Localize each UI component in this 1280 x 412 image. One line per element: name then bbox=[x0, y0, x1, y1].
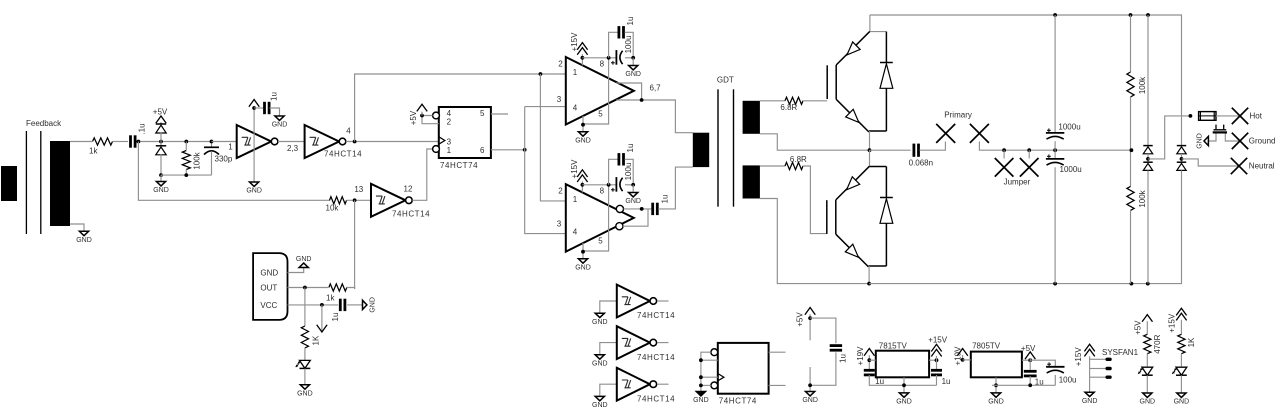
svg-text:12: 12 bbox=[404, 185, 413, 194]
junction bbox=[699, 384, 703, 388]
label 100k bbox=[1138, 189, 1147, 207]
wire bbox=[625, 159, 634, 185]
wire bbox=[581, 54, 583, 65]
label 1K bbox=[1187, 337, 1196, 347]
pin 2 bbox=[558, 187, 563, 196]
wire bbox=[1147, 154, 1149, 162]
wire bbox=[1054, 15, 1056, 133]
output bubble pin 7 bbox=[616, 223, 623, 230]
junction bbox=[252, 106, 256, 110]
svg-text:1000u: 1000u bbox=[1058, 123, 1080, 132]
junction bbox=[581, 123, 585, 127]
label 6.8R bbox=[790, 155, 807, 164]
label 100u bbox=[624, 36, 633, 54]
wire bbox=[657, 383, 668, 385]
inverter U1C 74HCT14 bbox=[371, 184, 412, 217]
junction bbox=[808, 316, 812, 320]
terminal Primary 2 bbox=[970, 124, 989, 143]
junction bbox=[320, 303, 324, 307]
wire bbox=[582, 57, 616, 59]
svg-text:1k: 1k bbox=[326, 294, 335, 303]
inverting pin bubble bbox=[711, 349, 718, 356]
wire bbox=[1180, 375, 1182, 393]
pin 6 label bbox=[480, 146, 485, 155]
wire bbox=[920, 142, 946, 151]
wire bbox=[979, 142, 1131, 151]
svg-text:GND: GND bbox=[693, 397, 709, 404]
junction bbox=[1146, 13, 1150, 17]
transistor Q2 (IGBT) bbox=[827, 166, 870, 267]
wire bbox=[760, 134, 870, 150]
ground bbox=[693, 392, 709, 405]
label 100k bbox=[193, 151, 202, 169]
svg-text:1: 1 bbox=[573, 68, 578, 77]
clock input wedge bbox=[718, 374, 724, 381]
capacitor 100u electrolytic bbox=[611, 50, 623, 65]
power +19V arrow bbox=[864, 349, 874, 356]
svg-text:GDT: GDT bbox=[717, 75, 734, 84]
capacitor 1000u electrolytic bbox=[1046, 154, 1064, 165]
power +15V arrow bbox=[931, 344, 941, 356]
svg-text:2: 2 bbox=[447, 118, 452, 127]
svg-text:Jumper: Jumper bbox=[1004, 177, 1031, 186]
ground bbox=[802, 392, 818, 405]
label 470R bbox=[1153, 334, 1162, 353]
diode clamp to +5V bbox=[156, 124, 166, 133]
label OUT pin bbox=[260, 283, 277, 292]
wire bbox=[1054, 150, 1056, 159]
svg-text:Ground: Ground bbox=[1249, 137, 1276, 146]
wire bbox=[870, 31, 887, 33]
wire bbox=[760, 199, 869, 284]
svg-text:GND: GND bbox=[625, 71, 641, 78]
wire bbox=[1146, 375, 1148, 393]
pin 3 bbox=[557, 95, 562, 104]
junction bbox=[1053, 282, 1057, 286]
output bubble pin 6 bbox=[616, 205, 623, 212]
wire bbox=[1028, 150, 1030, 158]
svg-text:100u: 100u bbox=[1059, 376, 1077, 385]
label 1u bbox=[942, 377, 951, 386]
svg-text:74HCT14: 74HCT14 bbox=[637, 394, 675, 403]
wire bbox=[160, 175, 162, 181]
label 74HCT14 bbox=[392, 210, 430, 219]
wire bbox=[625, 184, 633, 186]
wire bbox=[657, 300, 668, 302]
label +15V bbox=[570, 32, 579, 52]
svg-text:74HCT14: 74HCT14 bbox=[637, 353, 675, 362]
wire bbox=[1147, 15, 1149, 146]
wire bbox=[347, 199, 372, 201]
transistor Q1 (IGBT) bbox=[827, 31, 870, 132]
connector/sensor (GND OUT VCC) bbox=[253, 253, 287, 320]
junction bbox=[1028, 383, 1032, 387]
svg-text:Neutral: Neutral bbox=[1249, 162, 1275, 171]
wire bbox=[962, 355, 964, 360]
inverting pin bubble bbox=[711, 382, 718, 389]
wire bbox=[1130, 97, 1132, 187]
label 1u bbox=[626, 17, 635, 26]
junction bbox=[581, 183, 585, 187]
svg-text:VCC: VCC bbox=[260, 301, 277, 310]
label GND pin bbox=[260, 268, 278, 277]
label +5V bbox=[1021, 344, 1036, 353]
junction bbox=[994, 383, 998, 387]
junction bbox=[1130, 282, 1134, 286]
wire bbox=[701, 359, 718, 361]
pin 2 label bbox=[447, 118, 452, 127]
ground bbox=[1082, 392, 1098, 405]
wire bbox=[540, 74, 565, 201]
label 330p bbox=[215, 155, 233, 164]
junction bbox=[1189, 114, 1193, 118]
svg-text:2,3: 2,3 bbox=[287, 144, 299, 153]
junction bbox=[699, 375, 703, 379]
svg-text:5: 5 bbox=[480, 109, 485, 118]
svg-text:1u: 1u bbox=[331, 313, 340, 322]
resistor 100k bbox=[1127, 186, 1134, 210]
junction bbox=[137, 140, 141, 144]
pin 1 label bbox=[447, 146, 452, 155]
svg-text:+15V: +15V bbox=[928, 336, 948, 345]
wire bbox=[253, 106, 255, 182]
ground bbox=[592, 313, 608, 326]
wire bbox=[583, 185, 609, 251]
wire bbox=[963, 359, 971, 361]
terminal Neutral bbox=[1231, 158, 1247, 174]
label 1u bbox=[331, 313, 340, 322]
junction bbox=[640, 98, 644, 102]
label +15V bbox=[1168, 313, 1177, 333]
label 7805TV bbox=[972, 341, 1001, 350]
junction bbox=[539, 72, 543, 76]
wire bbox=[929, 359, 936, 361]
wire bbox=[582, 116, 584, 132]
resistor 100k bbox=[1127, 72, 1134, 97]
wire bbox=[623, 209, 648, 226]
wire bbox=[1029, 376, 1031, 385]
svg-text:Hot: Hot bbox=[1250, 112, 1263, 121]
wire bbox=[600, 301, 617, 313]
wire bbox=[1089, 356, 1091, 392]
wire bbox=[304, 288, 306, 327]
label 74HCT14 bbox=[637, 353, 675, 362]
LED D7 bbox=[296, 360, 311, 368]
wire bbox=[609, 159, 618, 185]
svg-text:1u: 1u bbox=[1035, 378, 1044, 387]
label VCC pin bbox=[260, 301, 277, 310]
ground bbox=[1174, 393, 1190, 406]
pin 8 bbox=[600, 187, 605, 196]
terminal Jumper 2 bbox=[1020, 158, 1039, 177]
junction bbox=[1146, 157, 1150, 161]
capacitor 1u bbox=[340, 299, 345, 311]
label 10k bbox=[326, 204, 340, 213]
wire bbox=[992, 384, 1055, 386]
capacitor 100u electrolytic bbox=[1046, 362, 1064, 373]
inverting clear pin bubble bbox=[433, 146, 440, 153]
wire bbox=[1148, 116, 1190, 159]
label Feedback bbox=[26, 119, 62, 128]
connector SYSFAN1 pin 1 bbox=[1106, 358, 1112, 361]
wire bbox=[1181, 170, 1183, 271]
svg-text:6,7: 6,7 bbox=[650, 84, 662, 93]
ground bbox=[153, 182, 169, 195]
svg-text:1u: 1u bbox=[626, 17, 635, 26]
svg-text:4: 4 bbox=[447, 109, 452, 118]
junction bbox=[699, 358, 703, 362]
junction bbox=[353, 140, 357, 144]
wire bbox=[936, 356, 938, 370]
pin 1 bbox=[573, 68, 578, 77]
label Hot bbox=[1250, 112, 1263, 121]
svg-text:1: 1 bbox=[573, 195, 578, 204]
diode D2 (freewheel) bbox=[880, 167, 893, 267]
wire bbox=[347, 304, 362, 306]
junction bbox=[1129, 13, 1133, 17]
wire bbox=[525, 107, 566, 234]
wire bbox=[1022, 359, 1030, 361]
label 100u bbox=[624, 163, 633, 181]
svg-text:GND: GND bbox=[592, 402, 608, 409]
wire bbox=[491, 113, 508, 115]
wire bbox=[617, 100, 693, 133]
junction bbox=[935, 358, 939, 362]
wire bbox=[347, 288, 355, 290]
ground bbox=[988, 393, 1004, 406]
wire bbox=[304, 348, 306, 360]
svg-text:3: 3 bbox=[557, 220, 562, 229]
junction bbox=[581, 250, 585, 254]
wire bbox=[138, 142, 330, 201]
wire bbox=[1054, 375, 1056, 385]
connector SYSFAN1 pin 2 bbox=[1106, 367, 1112, 370]
svg-text:5: 5 bbox=[598, 110, 603, 119]
power +19V arrow bbox=[957, 349, 967, 356]
power +15V arrow bbox=[577, 43, 587, 55]
wire bbox=[582, 184, 616, 186]
label .1u bbox=[138, 123, 147, 134]
wire bbox=[658, 167, 693, 209]
capacitor 1u bbox=[619, 26, 624, 38]
wire bbox=[616, 83, 641, 100]
label 74HCT14 bbox=[637, 311, 675, 320]
svg-text:6.8R: 6.8R bbox=[790, 155, 807, 164]
wire bbox=[1216, 115, 1240, 117]
wire bbox=[869, 271, 1181, 284]
ground bbox=[625, 66, 641, 79]
pin 8 bbox=[600, 60, 605, 69]
transformer GDT secondary 2 bbox=[743, 165, 760, 198]
svg-text:7805TV: 7805TV bbox=[972, 341, 1001, 350]
svg-text:1k: 1k bbox=[89, 147, 98, 156]
wire bbox=[1130, 15, 1132, 72]
resistor 1k bbox=[329, 284, 347, 291]
junction bbox=[902, 383, 906, 387]
wire bbox=[936, 375, 938, 385]
label Jumper bbox=[1004, 177, 1031, 186]
feedback transformer secondary winding bbox=[50, 141, 70, 226]
ground bbox=[625, 193, 641, 206]
pin 4 label bbox=[447, 109, 452, 118]
power +5V arrow bbox=[805, 308, 815, 341]
wire bbox=[1180, 320, 1182, 335]
pin 13 bbox=[354, 185, 363, 194]
wire bbox=[632, 185, 634, 193]
wire bbox=[625, 57, 633, 59]
wire bbox=[701, 376, 718, 378]
wire bbox=[869, 131, 887, 150]
wire bbox=[1225, 134, 1239, 142]
label 6,7 bbox=[650, 84, 662, 93]
svg-text:74HCT74: 74HCT74 bbox=[440, 161, 478, 170]
wire bbox=[288, 268, 304, 273]
wire bbox=[288, 304, 339, 306]
svg-text:GND: GND bbox=[592, 319, 608, 326]
LED D8 bbox=[1138, 367, 1153, 375]
svg-text:100u: 100u bbox=[624, 163, 633, 181]
wire bbox=[809, 367, 811, 392]
transformer GDT primary winding bbox=[693, 133, 709, 167]
svg-text:74HCT14: 74HCT14 bbox=[324, 150, 362, 159]
svg-text:GND: GND bbox=[575, 264, 591, 271]
svg-text:+19V: +19V bbox=[856, 346, 865, 366]
label 6.8R bbox=[780, 103, 797, 112]
wire bbox=[600, 384, 617, 396]
wire bbox=[582, 243, 584, 259]
inverter spare 74HCT14 #1 bbox=[617, 285, 657, 318]
label 1000u bbox=[1060, 165, 1082, 174]
power +5V arrow bbox=[417, 104, 427, 111]
svg-text:+15V: +15V bbox=[1168, 313, 1177, 333]
label 7815TV bbox=[879, 342, 908, 351]
label +5V bbox=[409, 110, 418, 125]
inverter spare 74HCT14 #2 bbox=[617, 326, 657, 359]
label +15V bbox=[928, 336, 948, 345]
svg-text:GND: GND bbox=[988, 399, 1004, 406]
capacitor 1u bbox=[864, 370, 875, 375]
svg-text:5: 5 bbox=[598, 237, 603, 246]
svg-text:100k: 100k bbox=[1138, 189, 1147, 207]
resistor 470R bbox=[1144, 334, 1151, 353]
svg-text:1u: 1u bbox=[942, 377, 951, 386]
wire bbox=[525, 106, 565, 108]
svg-text:GND: GND bbox=[246, 188, 262, 195]
inverter U1A 74HCT14 bbox=[237, 125, 278, 158]
capacitor 1u (GDT coupling) bbox=[653, 203, 658, 215]
wire bbox=[701, 352, 711, 391]
capacitor 1000u electrolytic bbox=[1046, 128, 1064, 139]
label Neutral bbox=[1249, 162, 1275, 171]
label GDT bbox=[717, 75, 734, 84]
svg-text:+5V: +5V bbox=[1021, 344, 1036, 353]
label 0.068n bbox=[909, 159, 933, 168]
svg-text:+15V: +15V bbox=[1074, 347, 1083, 367]
svg-text:Feedback: Feedback bbox=[26, 119, 62, 128]
feedback transformer sense winding (primary bar) bbox=[1, 166, 17, 201]
wire bbox=[869, 150, 871, 166]
capacitor 1u bbox=[830, 346, 842, 351]
transformer GDT core bbox=[718, 89, 734, 206]
pin 5 bbox=[598, 110, 603, 119]
wire bbox=[869, 375, 936, 385]
svg-text:4: 4 bbox=[346, 127, 351, 136]
label 74HCT14 bbox=[637, 394, 675, 403]
terminal Jumper 1 bbox=[995, 158, 1014, 177]
power +5V arrow bbox=[1025, 352, 1035, 359]
label Ground bbox=[1249, 137, 1276, 146]
wire bbox=[1146, 321, 1148, 334]
diode clamp to GND bbox=[156, 146, 166, 155]
ground bbox=[896, 393, 912, 406]
svg-text:1: 1 bbox=[447, 146, 452, 155]
junction bbox=[631, 183, 635, 187]
wire bbox=[624, 208, 652, 210]
junction bbox=[1146, 282, 1150, 286]
terminal Ground bbox=[1232, 133, 1248, 149]
wire bbox=[600, 343, 617, 355]
wire bbox=[1030, 360, 1055, 367]
wire bbox=[212, 141, 237, 143]
svg-text:OUT: OUT bbox=[260, 283, 277, 292]
ground bbox=[297, 385, 313, 398]
svg-text:GND: GND bbox=[260, 268, 278, 277]
wire bbox=[870, 15, 1182, 146]
svg-text:74HCT74: 74HCT74 bbox=[719, 397, 757, 406]
svg-text:7815TV: 7815TV bbox=[879, 342, 908, 351]
power +15V arrow bbox=[1084, 344, 1094, 356]
junction bbox=[961, 358, 965, 362]
svg-text:GND: GND bbox=[1140, 399, 1156, 406]
svg-text:+5V: +5V bbox=[153, 108, 168, 117]
label 74HCT74 bbox=[440, 161, 478, 170]
wire bbox=[1181, 154, 1183, 162]
ground bbox=[575, 259, 591, 272]
wire bbox=[346, 141, 439, 143]
svg-text:3: 3 bbox=[557, 95, 562, 104]
label +19V bbox=[856, 346, 865, 366]
junction bbox=[607, 183, 611, 187]
svg-text:+5V: +5V bbox=[796, 312, 805, 327]
svg-text:1u: 1u bbox=[270, 92, 279, 101]
junction bbox=[303, 286, 307, 290]
svg-text:8: 8 bbox=[600, 187, 605, 196]
label +5V bbox=[153, 108, 168, 117]
svg-text:6.8R: 6.8R bbox=[780, 103, 797, 112]
junction bbox=[159, 140, 163, 144]
pin 4 bbox=[573, 104, 578, 113]
power +5V arrow bbox=[1142, 315, 1152, 322]
wire bbox=[211, 142, 213, 148]
label 1k bbox=[89, 147, 98, 156]
pin 5 label bbox=[480, 109, 485, 118]
power arrow down bbox=[317, 305, 327, 332]
wire bbox=[583, 58, 609, 124]
wire bbox=[1180, 354, 1182, 367]
terminal Hot bbox=[1232, 108, 1248, 124]
wire bbox=[1054, 167, 1056, 283]
wire bbox=[870, 166, 887, 168]
label 100k bbox=[1138, 76, 1147, 94]
wire bbox=[1146, 354, 1148, 367]
svg-text:0.068n: 0.068n bbox=[909, 159, 933, 168]
wire bbox=[355, 74, 565, 142]
inverter U1B 74HCT14 bbox=[305, 125, 346, 158]
junction bbox=[210, 140, 214, 144]
wire bbox=[160, 132, 162, 146]
label Primary bbox=[944, 111, 972, 120]
svg-text:GND: GND bbox=[1174, 399, 1190, 406]
